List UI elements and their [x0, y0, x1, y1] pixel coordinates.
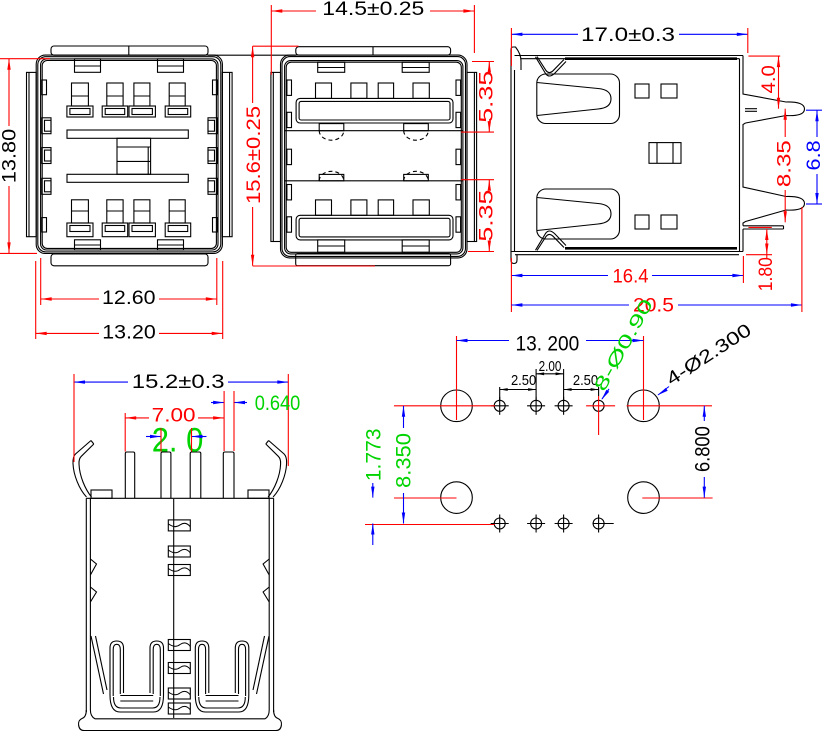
- svg-text:15.6±0.25: 15.6±0.25: [244, 106, 265, 204]
- svg-text:4-Ø2.300: 4-Ø2.300: [662, 319, 755, 389]
- svg-text:1.773: 1.773: [363, 428, 386, 481]
- svg-text:6.800: 6.800: [692, 426, 715, 472]
- svg-text:13. 200: 13. 200: [516, 333, 580, 356]
- svg-text:6.8: 6.8: [804, 140, 825, 170]
- svg-text:2. 0: 2. 0: [152, 422, 204, 460]
- svg-text:2.00: 2.00: [539, 358, 562, 375]
- svg-text:4.0: 4.0: [759, 65, 780, 93]
- svg-text:13.20: 13.20: [102, 322, 156, 343]
- svg-text:5.35: 5.35: [476, 71, 497, 123]
- svg-text:5.35: 5.35: [476, 190, 497, 242]
- svg-text:15.2±0.3: 15.2±0.3: [132, 372, 225, 393]
- svg-text:8-Ø0.90: 8-Ø0.90: [590, 296, 657, 395]
- svg-text:16.4: 16.4: [613, 267, 649, 288]
- svg-text:2.50: 2.50: [511, 372, 536, 389]
- svg-text:1.80: 1.80: [756, 257, 777, 291]
- svg-text:17.0±0.3: 17.0±0.3: [581, 25, 675, 46]
- svg-text:14.5±0.25: 14.5±0.25: [322, 0, 424, 20]
- svg-text:8.35: 8.35: [775, 140, 796, 187]
- svg-text:8.350: 8.350: [393, 433, 416, 488]
- svg-text:0.640: 0.640: [255, 392, 301, 415]
- svg-text:13.80: 13.80: [0, 129, 21, 183]
- svg-text:12.60: 12.60: [102, 288, 156, 309]
